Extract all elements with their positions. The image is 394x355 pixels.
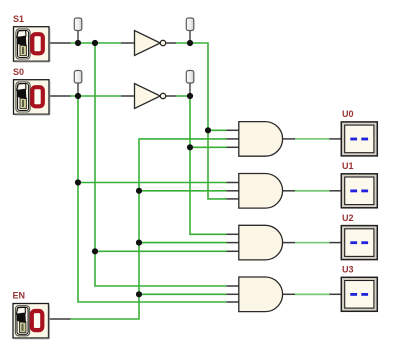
wire AND4 to U3 (light green)	[295, 293, 330, 295]
wire S0 output stub (dark)	[49, 95, 71, 97]
wire S1 row horizontal	[71, 42, 122, 44]
wire AND2 output stub (dark)	[283, 190, 295, 192]
svg-text:S1: S1	[13, 14, 24, 24]
wire pin1 stem	[77, 31, 79, 44]
wire AND1 input stubs (dark)	[227, 130, 240, 147]
wire AND2 to U1 (light green)	[295, 190, 330, 192]
wire AND4 input stubs (dark)	[227, 286, 240, 302]
pin P2 (above NOT1 output)	[186, 18, 194, 31]
wire pin2 stem	[189, 31, 191, 44]
node EN/AND4 junction	[136, 291, 142, 297]
wire AND4 output stub (dark)	[283, 293, 295, 295]
wire /S1 branch to AND1 top	[208, 129, 227, 131]
display U3	[341, 277, 377, 311]
display U0	[341, 122, 377, 156]
pin P4 (above NOT2 output)	[186, 71, 194, 84]
wire NOT1 output stub (dark)	[166, 42, 177, 44]
wire S1 branch to AND3 bottom	[95, 250, 227, 252]
wire S0 vertical x=78	[78, 96, 227, 302]
wire U3 input stub (dark)	[330, 293, 342, 295]
wire AND3 input stubs (dark)	[227, 234, 240, 251]
wire AND2 input stubs (dark)	[227, 183, 240, 199]
node S0/AND2 junction	[75, 179, 81, 185]
inverter NOT2	[135, 84, 166, 109]
wire /S1 horizontal and vertical x=208	[176, 43, 227, 199]
wire NOT2 input stub (dark)	[121, 95, 135, 97]
and-gate AND4	[239, 277, 283, 312]
node S1-pin junction	[75, 40, 81, 46]
svg-text:EN: EN	[13, 290, 26, 300]
node EN/AND2 junction	[136, 188, 142, 194]
wire EN branch to AND2 mid	[139, 190, 227, 192]
node S0-pin junction	[75, 93, 81, 99]
pin P1 (above S1 junction)	[74, 18, 82, 31]
svg-text:U1: U1	[342, 161, 354, 171]
wire EN branch to AND4 mid	[139, 293, 227, 295]
node S1 branch junction	[92, 40, 98, 46]
switch S1	[14, 27, 50, 62]
svg-text:U0: U0	[342, 109, 354, 119]
wire U0 input stub (dark)	[330, 138, 342, 140]
wire pin3 stem	[77, 83, 79, 96]
wire EN branch to AND3 mid	[139, 242, 227, 244]
pin P3 (above S0 junction)	[74, 71, 82, 84]
switch EN	[13, 304, 49, 339]
wire /S0 vertical x=190	[190, 96, 227, 234]
wire AND1 to U0 (light green)	[295, 138, 330, 140]
wire EN horizontal and vertical x=139	[71, 139, 227, 319]
wire pin4 stem	[189, 83, 191, 96]
wire U2 input stub (dark)	[330, 242, 342, 244]
node /S1-pin junction	[187, 40, 193, 46]
wire S1 vertical x=95	[95, 43, 227, 286]
wire AND3 to U2 (light green)	[295, 242, 330, 244]
wire NOT1 input stub (dark)	[121, 42, 135, 44]
wire S0 branch to AND2 top	[78, 182, 227, 184]
inverter NOT1	[135, 31, 166, 56]
svg-text:S0: S0	[13, 67, 24, 77]
wire AND3 output stub (dark)	[283, 242, 295, 244]
and-gate AND1	[239, 122, 283, 157]
wire S0 row horizontal	[71, 95, 122, 97]
wire /S0 branch to AND1 bottom	[190, 146, 227, 148]
wire AND1 output stub (dark)	[283, 138, 295, 140]
node /S1/AND1 junction	[205, 127, 211, 133]
display U1	[341, 174, 377, 208]
svg-text:U2: U2	[342, 213, 354, 223]
node /S0/AND1 junction	[187, 144, 193, 150]
and-gate AND2	[239, 174, 283, 209]
display U2	[341, 226, 377, 260]
wire S1 output stub (dark)	[49, 42, 71, 44]
switch S0	[14, 80, 50, 115]
wire /S0 to junction	[176, 95, 190, 97]
node /S0-pin junction	[187, 93, 193, 99]
wire U1 input stub (dark)	[330, 190, 342, 192]
node S1/AND3 junction	[92, 248, 98, 254]
wire EN output stub (dark)	[49, 318, 71, 320]
node EN/AND3 junction	[136, 240, 142, 246]
svg-text:U3: U3	[342, 265, 354, 275]
and-gate AND3	[239, 225, 283, 260]
wire NOT2 output stub (dark)	[166, 95, 177, 97]
